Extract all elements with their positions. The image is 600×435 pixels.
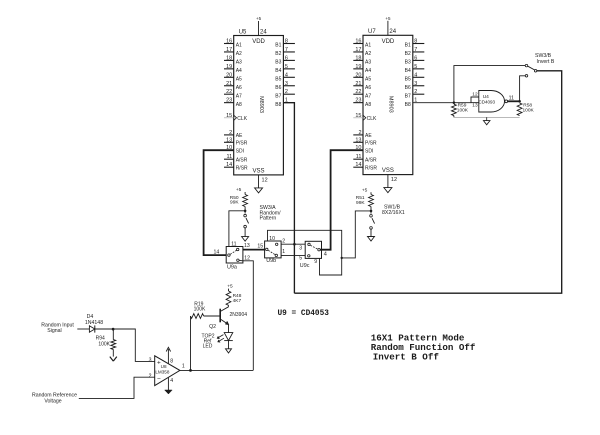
- U5 pin 3 B6: [283, 85, 295, 87]
- svg-text:VSS: VSS: [253, 168, 265, 174]
- ground below op-amp: [165, 390, 173, 394]
- svg-text:6: 6: [414, 55, 417, 61]
- svg-text:P/SR: P/SR: [236, 141, 248, 147]
- U5 pin 5 B4: [283, 68, 295, 70]
- svg-text:B7: B7: [405, 93, 411, 99]
- U5 pin 15 CLK: [224, 117, 234, 119]
- svg-text:14: 14: [214, 249, 220, 255]
- svg-text:2N3904: 2N3904: [230, 312, 248, 318]
- svg-text:6: 6: [285, 55, 288, 61]
- wire U9b pin 1 to U9c pin 5: [281, 255, 305, 257]
- svg-text:A3: A3: [236, 60, 242, 66]
- ground symbol under gate: [483, 121, 490, 125]
- svg-text:A7: A7: [365, 93, 371, 99]
- wire B8 direct to SW3/B upper contact: [454, 66, 525, 103]
- svg-text:B1: B1: [405, 43, 411, 49]
- node junction B8 net / U9b pin 2: [293, 243, 296, 246]
- svg-text:A/SR: A/SR: [236, 157, 248, 163]
- U5 pin 18 A3: [224, 59, 234, 61]
- svg-text:13: 13: [226, 137, 232, 143]
- svg-text:+5: +5: [362, 187, 368, 193]
- svg-text:19: 19: [355, 64, 361, 70]
- svg-text:3: 3: [299, 245, 302, 251]
- svg-text:P/SR: P/SR: [365, 141, 377, 147]
- svg-text:20: 20: [355, 72, 361, 78]
- svg-text:5: 5: [299, 256, 302, 262]
- op-amp V- pin 4 with ground: [167, 377, 169, 390]
- U5 pin 21 A6: [224, 85, 234, 87]
- svg-text:21: 21: [226, 81, 232, 87]
- svg-text:B3: B3: [405, 60, 411, 66]
- NAND gate U4 CD4093 (pins 12,13 in / 11 out): [471, 97, 479, 103]
- svg-text:B2: B2: [405, 51, 411, 57]
- svg-text:100K: 100K: [523, 108, 535, 114]
- svg-text:14: 14: [226, 162, 232, 168]
- U7 pin 18 A3: [353, 59, 363, 61]
- svg-text:AE: AE: [365, 133, 372, 139]
- svg-text:5: 5: [285, 64, 288, 70]
- svg-text:B8: B8: [275, 102, 281, 108]
- svg-text:2: 2: [282, 238, 285, 244]
- svg-text:16: 16: [355, 39, 361, 45]
- svg-text:M8903: M8903: [258, 96, 264, 113]
- wire diode to junction and op-amp: [95, 328, 113, 330]
- svg-text:10: 10: [269, 236, 275, 242]
- svg-text:A8: A8: [365, 102, 371, 108]
- svg-text:17: 17: [355, 47, 361, 53]
- U7 pin 2 AE: [353, 134, 363, 136]
- svg-text:20: 20: [226, 72, 232, 78]
- svg-text:U9c: U9c: [300, 263, 310, 269]
- svg-text:A4: A4: [236, 68, 242, 74]
- LED TOP2 Ref LED: [224, 333, 233, 341]
- svg-text:U9a: U9a: [227, 264, 237, 270]
- svg-text:B4: B4: [275, 68, 281, 74]
- IC U7 (M8903) body: [363, 35, 413, 174]
- svg-text:1: 1: [282, 249, 285, 255]
- svg-text:U9b: U9b: [266, 258, 276, 264]
- U5 pin 23 A8: [224, 102, 234, 104]
- wire output junction up to R19: [190, 316, 192, 370]
- svg-text:24: 24: [389, 29, 396, 35]
- U5 pin 7 B2: [283, 51, 295, 53]
- svg-text:A8: A8: [236, 102, 242, 108]
- U5 pin 12 VSS ground wire: [258, 175, 260, 188]
- svg-text:B4: B4: [405, 68, 411, 74]
- svg-text:A2: A2: [365, 51, 371, 57]
- svg-text:1: 1: [182, 363, 185, 369]
- U5 pin 8 B1: [283, 43, 295, 45]
- svg-text:23: 23: [226, 98, 232, 104]
- wire emitter to LED: [228, 325, 230, 333]
- svg-text:2: 2: [229, 130, 232, 136]
- svg-text:A6: A6: [365, 85, 371, 91]
- svg-text:SDI: SDI: [236, 148, 244, 154]
- U7 pin 19 A4: [353, 68, 363, 70]
- svg-text:R48: R48: [233, 293, 242, 299]
- svg-text:8: 8: [414, 39, 417, 45]
- U5 pin 16 A1: [224, 43, 234, 45]
- svg-text:21: 21: [355, 81, 361, 87]
- U7 pin 5 B4: [413, 68, 425, 70]
- svg-text:CLK: CLK: [367, 116, 377, 122]
- resistor R59 100K: [452, 104, 457, 115]
- U5 pin 6 B3: [283, 59, 295, 61]
- resistor R58 100K: [517, 103, 522, 116]
- svg-text:R/SR: R/SR: [365, 165, 377, 171]
- svg-text:22: 22: [226, 89, 232, 95]
- node gate output / R58 junction: [518, 100, 521, 103]
- node SW1/B junction: [370, 210, 373, 213]
- U5 pin 17 A2: [224, 51, 234, 53]
- analog switch U9b: [265, 241, 282, 258]
- node mode-net junction: [341, 257, 343, 259]
- svg-text:7: 7: [285, 47, 288, 53]
- ground below SW3/A: [242, 237, 249, 242]
- U5 pin 11 A/SR: [224, 158, 234, 160]
- svg-text:VSS: VSS: [382, 168, 394, 174]
- wire U7 B8 to inverter input: [413, 102, 471, 104]
- svg-text:16: 16: [226, 39, 232, 45]
- resistor R94 100K to ground: [112, 329, 114, 340]
- svg-text:3: 3: [414, 81, 417, 87]
- resistor R50 99K: [243, 195, 248, 207]
- U5 pin 4 B5: [283, 76, 295, 78]
- U7 pin 13 P/SR: [353, 141, 363, 143]
- U7 pin 4 B5: [413, 76, 425, 78]
- wire R58 junction up to SW3/B lower contact: [520, 76, 526, 102]
- svg-text:2: 2: [149, 374, 152, 380]
- U7 pin 14 R/SR: [353, 166, 363, 168]
- svg-text:12: 12: [472, 91, 478, 97]
- svg-text:12: 12: [391, 177, 397, 183]
- svg-text:8X2/16X1: 8X2/16X1: [382, 210, 405, 216]
- svg-text:Signal: Signal: [47, 328, 61, 334]
- svg-text:+5: +5: [256, 16, 262, 21]
- wire U9b control pin 10 to mode net: [268, 230, 342, 275]
- U7 pin 3 B6: [413, 85, 425, 87]
- ground rail under gate: [453, 116, 455, 118]
- U7 pin 12 VSS ground wire: [387, 175, 389, 188]
- U7 pin 17 A2: [353, 51, 363, 53]
- svg-text:100K: 100K: [457, 108, 469, 114]
- wire junction to op-amp + input: [113, 329, 155, 361]
- svg-text:LM358: LM358: [155, 369, 169, 374]
- svg-text:A3: A3: [365, 60, 371, 66]
- arrow ground below R94: [110, 357, 114, 362]
- svg-text:A5: A5: [365, 77, 371, 83]
- svg-text:VDD: VDD: [382, 39, 395, 45]
- svg-text:A4: A4: [365, 68, 371, 74]
- svg-text:22: 22: [355, 89, 361, 95]
- svg-text:100K: 100K: [194, 307, 206, 313]
- svg-text:AE: AE: [236, 133, 243, 139]
- svg-text:13: 13: [355, 137, 361, 143]
- wire U9a pin 13 to U9b pin 15: [243, 249, 265, 251]
- svg-text:−: −: [157, 376, 161, 383]
- wire SW1/B to U9b/U9c control (mode net): [342, 211, 371, 258]
- U7 pin 24 VDD power wire and +5 symbol: [387, 21, 389, 36]
- node output junction to R19: [189, 369, 192, 372]
- wire U9a pin 12 to comparator output: [239, 260, 253, 370]
- U5 pin 13 P/SR: [224, 141, 234, 143]
- svg-text:8: 8: [285, 39, 288, 45]
- svg-text:+5: +5: [385, 16, 391, 21]
- svg-text:11: 11: [226, 154, 232, 160]
- resistor R48 4K7: [226, 291, 231, 305]
- svg-text:B6: B6: [275, 85, 281, 91]
- svg-text:1N4148: 1N4148: [85, 320, 103, 326]
- U7 pin 22 A7: [353, 93, 363, 95]
- wire R19 to Q2 base: [204, 315, 221, 317]
- wire input signal to diode: [77, 328, 89, 330]
- svg-text:B5: B5: [275, 77, 281, 83]
- svg-text:B8: B8: [405, 102, 411, 108]
- svg-text:B6: B6: [405, 85, 411, 91]
- svg-text:B7: B7: [275, 93, 281, 99]
- svg-text:4: 4: [170, 378, 173, 384]
- resistor R19 100K: [191, 314, 204, 319]
- svg-text:Pattern: Pattern: [260, 216, 277, 222]
- svg-text:99K: 99K: [356, 200, 365, 206]
- U7 pin 20 A5: [353, 76, 363, 78]
- op-amp V+ pin 8: [167, 349, 169, 364]
- U7 pin 16 A1: [353, 43, 363, 45]
- svg-text:Invert B: Invert B: [537, 59, 555, 65]
- svg-text:A/SR: A/SR: [365, 157, 377, 163]
- ground below LED: [226, 349, 232, 353]
- svg-text:9: 9: [314, 259, 317, 265]
- svg-text:15: 15: [257, 243, 263, 249]
- svg-text:3: 3: [285, 81, 288, 87]
- svg-text:11: 11: [509, 95, 514, 101]
- svg-text:A2: A2: [236, 51, 242, 57]
- svg-text:CLK: CLK: [237, 116, 247, 122]
- svg-text:5: 5: [414, 64, 417, 70]
- switch SW3/B Invert B: [525, 64, 528, 67]
- ground below U7: [384, 188, 392, 193]
- svg-text:7: 7: [414, 47, 417, 53]
- svg-text:A1: A1: [236, 43, 242, 49]
- wire U9b pin 2 to B8 feedback net: [281, 243, 305, 245]
- IC U5 (M8903) body: [234, 36, 284, 175]
- svg-text:A6: A6: [236, 85, 242, 91]
- ground below U5: [255, 188, 263, 193]
- svg-text:18: 18: [355, 55, 361, 61]
- svg-text:B5: B5: [405, 77, 411, 83]
- svg-text:8: 8: [170, 359, 173, 365]
- svg-text:17: 17: [226, 47, 232, 53]
- wire SW3/A to U9a pin 11 control: [229, 211, 245, 247]
- svg-text:VDD: VDD: [252, 39, 265, 45]
- U7 pin 23 A8: [353, 102, 363, 104]
- svg-text:Q2: Q2: [209, 324, 216, 330]
- svg-text:M8903: M8903: [387, 96, 393, 113]
- U7 pin 2 B7: [413, 93, 425, 95]
- svg-text:CD4093: CD4093: [479, 100, 496, 105]
- node R59 junction: [453, 101, 456, 104]
- wire LED to ground: [228, 341, 230, 349]
- svg-text:B1: B1: [275, 43, 281, 49]
- wire reference voltage to op-amp - input: [79, 377, 155, 398]
- wire gate output pin 11 to R58 junction: [508, 100, 520, 102]
- svg-text:2: 2: [358, 130, 361, 136]
- op-amp U8 LM358: [155, 356, 180, 386]
- wire bottom feedback loop to SW3/B common: [294, 71, 561, 293]
- U7 pin 11 A/SR: [353, 158, 363, 160]
- U5 pin 2 B7: [283, 93, 295, 95]
- node input junction: [112, 328, 115, 331]
- U5 pin 22 A7: [224, 93, 234, 95]
- diode D4 1N4148: [89, 326, 94, 332]
- switch SW3/A Random/Pattern: [244, 214, 247, 217]
- svg-text:B2: B2: [275, 51, 281, 57]
- svg-text:11: 11: [356, 154, 362, 160]
- svg-text:15: 15: [355, 113, 361, 119]
- svg-text:U7: U7: [368, 29, 376, 35]
- svg-text:B3: B3: [275, 60, 281, 66]
- wire U9c pin 4 to U7 SDI: [320, 150, 363, 250]
- svg-text:13: 13: [244, 243, 250, 249]
- U7 pin 15 CLK: [353, 117, 363, 119]
- svg-text:15: 15: [226, 113, 232, 119]
- svg-text:LED: LED: [203, 344, 213, 350]
- svg-text:100K: 100K: [98, 341, 110, 347]
- U7 pin 7 B2: [413, 51, 425, 53]
- svg-text:U8: U8: [161, 364, 167, 369]
- U5 pin 14 R/SR: [224, 166, 234, 168]
- switch SW1/B 8X2/16X1: [370, 215, 373, 218]
- svg-text:13: 13: [472, 103, 478, 109]
- svg-text:U5: U5: [239, 29, 247, 35]
- svg-text:2: 2: [414, 89, 417, 95]
- svg-text:A5: A5: [236, 77, 242, 83]
- svg-text:4: 4: [285, 72, 288, 78]
- U7 pin 6 B3: [413, 59, 425, 61]
- analog switch U9a: [226, 247, 243, 264]
- wire U5 SDI to U9a pin 14: [204, 150, 234, 255]
- svg-text:2: 2: [285, 89, 288, 95]
- U5 pin 19 A4: [224, 68, 234, 70]
- svg-text:12: 12: [262, 177, 268, 183]
- svg-text:A1: A1: [365, 43, 371, 49]
- analog switch U9c: [305, 241, 321, 258]
- resistor R51 99K: [369, 195, 374, 207]
- svg-text:4K7: 4K7: [233, 298, 242, 304]
- svg-text:SDI: SDI: [365, 148, 373, 154]
- svg-text:Invert B Off: Invert B Off: [373, 351, 440, 362]
- svg-text:19: 19: [226, 64, 232, 70]
- ground below SW1/B: [368, 237, 375, 242]
- wire U5 B8 to feedback net (down to bottom loop): [283, 103, 294, 294]
- svg-text:+5: +5: [236, 187, 242, 193]
- svg-text:U9 = CD4053: U9 = CD4053: [278, 310, 330, 318]
- svg-text:Voltage: Voltage: [44, 398, 61, 404]
- U5 pin 20 A5: [224, 76, 234, 78]
- svg-text:18: 18: [226, 55, 232, 61]
- svg-text:A7: A7: [236, 93, 242, 99]
- node SW3/A junction: [244, 210, 247, 213]
- U5 pin 24 VDD power wire and +5 symbol: [258, 21, 260, 36]
- svg-text:11: 11: [231, 241, 236, 247]
- svg-text:3: 3: [149, 357, 152, 363]
- svg-text:24: 24: [260, 29, 267, 35]
- svg-text:4: 4: [324, 251, 327, 257]
- svg-text:14: 14: [355, 162, 361, 168]
- wire op-amp output pin 1: [180, 369, 253, 371]
- svg-text:23: 23: [355, 98, 361, 104]
- U7 pin 21 A6: [353, 85, 363, 87]
- svg-text:R/SR: R/SR: [236, 165, 248, 171]
- svg-text:99K: 99K: [230, 200, 239, 206]
- U7 pin 8 B1: [413, 43, 425, 45]
- wire R48 to collector: [228, 305, 230, 307]
- U5 pin 2 AE: [224, 134, 234, 136]
- transistor Q2 2N3904: [219, 309, 221, 323]
- svg-text:4: 4: [414, 72, 417, 78]
